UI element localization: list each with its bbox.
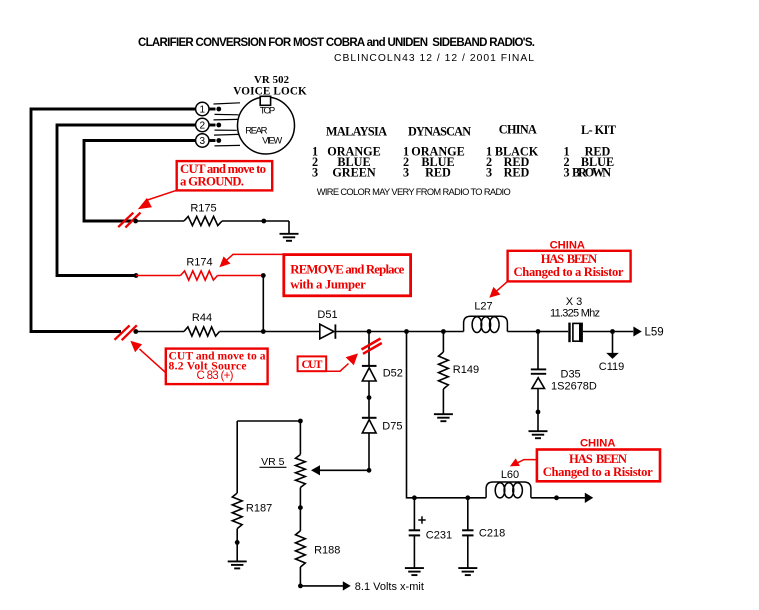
junction R44/R174 junction: [261, 329, 266, 334]
wire: [299, 488, 301, 531]
wire: [136, 220, 184, 222]
ground (R149): [434, 414, 453, 421]
wire: [220, 331, 320, 333]
junction R188 bottom: [298, 584, 303, 589]
diode D51: [320, 324, 336, 339]
svg-text:R187: R187: [246, 502, 272, 514]
junction C119 branch: [610, 329, 615, 334]
arrow C119 (to cap): [606, 353, 619, 359]
varactor diode D35: [531, 369, 546, 388]
junction R44 left: [133, 329, 138, 334]
pin 2 lead wires: [214, 118, 238, 121]
svg-text:1: 1: [200, 105, 206, 116]
potentiometer VR5 element: [296, 455, 306, 488]
wire: [507, 331, 568, 333]
cut slashes on R44 wire: [115, 325, 137, 340]
VR502 top tab: [260, 96, 270, 105]
junction D75 to VR5 wiper: [367, 468, 372, 473]
junction R149 branch: [441, 329, 446, 334]
cut slashes on D52 branch: [362, 339, 382, 354]
svg-text:C 83 (+): C 83 (+): [197, 369, 234, 382]
annotation arrow to L60: [510, 458, 537, 466]
svg-text:CHINA: CHINA: [550, 239, 585, 251]
wire to ground: [288, 221, 290, 234]
wire: [413, 498, 415, 531]
annotation box: CUT and move to a 8.2 Volt Source: [166, 349, 268, 385]
output arrow L59: [633, 327, 641, 337]
svg-text:CLARIFIER CONVERSION FOR MOST: CLARIFIER CONVERSION FOR MOST COBRA and …: [138, 37, 535, 49]
ground (C218): [458, 568, 477, 575]
diode D52: [362, 366, 377, 381]
svg-text:L59: L59: [645, 327, 664, 339]
annotation arrow to L27: [489, 281, 508, 298]
wire: [299, 567, 301, 586]
svg-text:with a Jumper: with a Jumper: [290, 278, 366, 292]
crystal X3: [570, 323, 582, 343]
wire: [537, 389, 539, 432]
arrow 8.1 volts: [343, 581, 351, 590]
wire down from junction: [368, 332, 370, 366]
output arrow (L60 row): [585, 493, 593, 503]
wire VR5 top: [237, 421, 300, 455]
ground (C231): [405, 568, 424, 575]
svg-text:C218: C218: [479, 528, 505, 540]
annotation box: REMOVE and Replace with a Jumper: [284, 255, 411, 296]
junction R174 left: [134, 273, 139, 278]
annotation arrow to R174: [219, 254, 283, 267]
wire: [414, 497, 486, 499]
svg-text:WIRE COLOR MAY VERY FROM RADIO: WIRE COLOR MAY VERY FROM RADIO TO RADIO: [317, 187, 511, 197]
annotation box: CUT (D52 branch): [298, 356, 327, 371]
annotation arrow to R44 cut: [130, 341, 166, 373]
svg-text:VIEW: VIEW: [262, 135, 282, 146]
pin 3 lead wires: [214, 133, 239, 136]
svg-text:HAS BEEN: HAS BEEN: [569, 452, 627, 466]
wire down to R44 row: [262, 276, 264, 332]
wire: [236, 529, 238, 562]
svg-text:X 3: X 3: [566, 296, 583, 308]
resistor R44: [184, 327, 220, 336]
wire: [531, 497, 585, 499]
wire: [222, 220, 289, 222]
wire: [442, 389, 444, 414]
wire: [335, 331, 463, 333]
svg-text:D52: D52: [383, 367, 403, 379]
svg-text:11.325 Mhz: 11.325 Mhz: [550, 308, 600, 320]
diode D75: [362, 418, 377, 433]
junction L27/X3 junction: [536, 329, 541, 334]
VR5 wiper arrow: [311, 465, 320, 475]
junction between D52 and D75: [367, 395, 372, 400]
svg-text:CUT: CUT: [302, 358, 323, 371]
wire pin2 to R174 row: [57, 125, 196, 276]
svg-text:GREEN: GREEN: [332, 165, 376, 179]
svg-text:R44: R44: [192, 312, 212, 324]
resistor R149: [439, 352, 449, 389]
capacitor C218: [462, 530, 473, 535]
annotation arrow to R175 cut: [138, 190, 177, 209]
junction R187 bottom: [235, 540, 240, 545]
wire to VR5 wiper: [318, 469, 369, 471]
plus sign (C231 polarity): [418, 516, 425, 523]
pin 2 terminal: [209, 124, 216, 127]
svg-text:8.1 Volts x-mit: 8.1 Volts x-mit: [355, 581, 424, 593]
annotation box: CHINA HAS BEEN Changed to a Risistor (upper): [508, 251, 631, 282]
svg-text:Changed to a Risistor: Changed to a Risistor: [543, 465, 653, 479]
wire to 8.1V arrow: [300, 585, 343, 587]
junction R175 left: [133, 219, 138, 224]
pin 1 lead wires: [214, 103, 241, 104]
inductor L27: [464, 316, 508, 332]
svg-text:L60: L60: [501, 469, 519, 481]
svg-text:L- KIT: L- KIT: [581, 123, 616, 137]
capacitor C231: [409, 530, 420, 535]
svg-text:REMOVE and Replace: REMOVE and Replace: [290, 263, 404, 277]
svg-text:D35: D35: [561, 369, 581, 381]
svg-text:3: 3: [486, 165, 492, 179]
svg-text:BROWN: BROWN: [572, 165, 611, 179]
ground (R187): [228, 561, 247, 568]
junction C218 top: [465, 495, 470, 500]
pin 1 terminal: [209, 108, 216, 111]
svg-text:DYNASCAN: DYNASCAN: [408, 125, 471, 139]
svg-text:a GROUND.: a GROUND.: [180, 175, 244, 189]
wire: [612, 332, 614, 354]
resistor R174 (red): [181, 271, 218, 280]
svg-text:RED: RED: [425, 165, 451, 179]
wire pin1 to R44 row: [31, 109, 196, 332]
junction D35 bottom: [536, 410, 541, 415]
svg-text:D51: D51: [317, 309, 337, 321]
svg-text:CHINA: CHINA: [580, 437, 615, 449]
svg-text:CHINA: CHINA: [499, 123, 537, 137]
svg-text:3: 3: [403, 165, 409, 179]
junction C231 branch: [404, 329, 409, 334]
svg-text:3: 3: [200, 136, 206, 147]
wire: [236, 421, 238, 493]
ground (D35): [529, 431, 548, 438]
pin 3 terminal: [209, 139, 216, 142]
junction R175 right: [261, 219, 266, 224]
svg-text:1S2678D: 1S2678D: [551, 380, 597, 392]
wire (red): [218, 275, 264, 277]
wire: [413, 535, 415, 568]
annotation box: CHINA HAS BEEN Changed to a Risistor (lower): [537, 450, 660, 482]
wire pin3 to R175 row: [84, 141, 196, 222]
svg-text:L27: L27: [474, 301, 492, 313]
cut slashes on R175 wire: [118, 213, 140, 228]
svg-text:R149: R149: [453, 364, 479, 376]
svg-text:D75: D75: [382, 421, 402, 433]
svg-text:C119: C119: [599, 361, 624, 373]
wire: [467, 535, 469, 568]
svg-text:CBLINCOLN43 12 / 12 / 2001 FIN: CBLINCOLN43 12 / 12 / 2001 FINAL: [334, 53, 534, 64]
junction L60 out: [554, 495, 559, 500]
resistor R187: [232, 493, 242, 529]
svg-text:3: 3: [312, 165, 318, 179]
potentiometer VR502 body (rear view): [238, 97, 295, 154]
svg-text:VR 5: VR 5: [261, 456, 285, 468]
wire: [583, 331, 633, 333]
svg-text:C231: C231: [426, 530, 452, 542]
svg-text:MALAYSIA: MALAYSIA: [326, 125, 387, 139]
wire: [537, 332, 539, 370]
junction C231 top: [412, 495, 417, 500]
svg-text:TOP: TOP: [260, 106, 276, 117]
wire: [467, 498, 469, 531]
resistor R188: [296, 531, 306, 567]
resistor R175: [184, 216, 222, 225]
wire: [368, 381, 370, 418]
inductor L60: [486, 482, 531, 498]
ground (R175): [280, 234, 299, 241]
wire: [136, 331, 184, 333]
svg-text:R174: R174: [186, 257, 212, 269]
svg-text:HAS BEEN: HAS BEEN: [541, 252, 598, 266]
wire: [368, 433, 370, 470]
svg-text:VR 502: VR 502: [254, 74, 289, 86]
svg-text:R188: R188: [314, 544, 340, 556]
svg-text:Changed to a Risistor: Changed to a Risistor: [514, 265, 624, 279]
svg-text:R175: R175: [190, 203, 216, 215]
wire color table: [312, 123, 616, 180]
annotation arrow to D52 cut: [326, 353, 358, 371]
svg-text:2: 2: [200, 121, 206, 132]
wire: [442, 332, 444, 353]
wire long vertical to L60 row: [407, 332, 415, 498]
junction VR5 top: [298, 419, 303, 424]
svg-text:RED: RED: [504, 165, 530, 179]
svg-text:3: 3: [563, 165, 569, 179]
junction D52 branch: [367, 329, 372, 334]
junction VR5 bottom / R188 top: [298, 505, 303, 510]
junction R174 right: [261, 273, 266, 278]
wire (red): [136, 275, 181, 277]
annotation box: CUT and move to a GROUND: [177, 161, 273, 190]
